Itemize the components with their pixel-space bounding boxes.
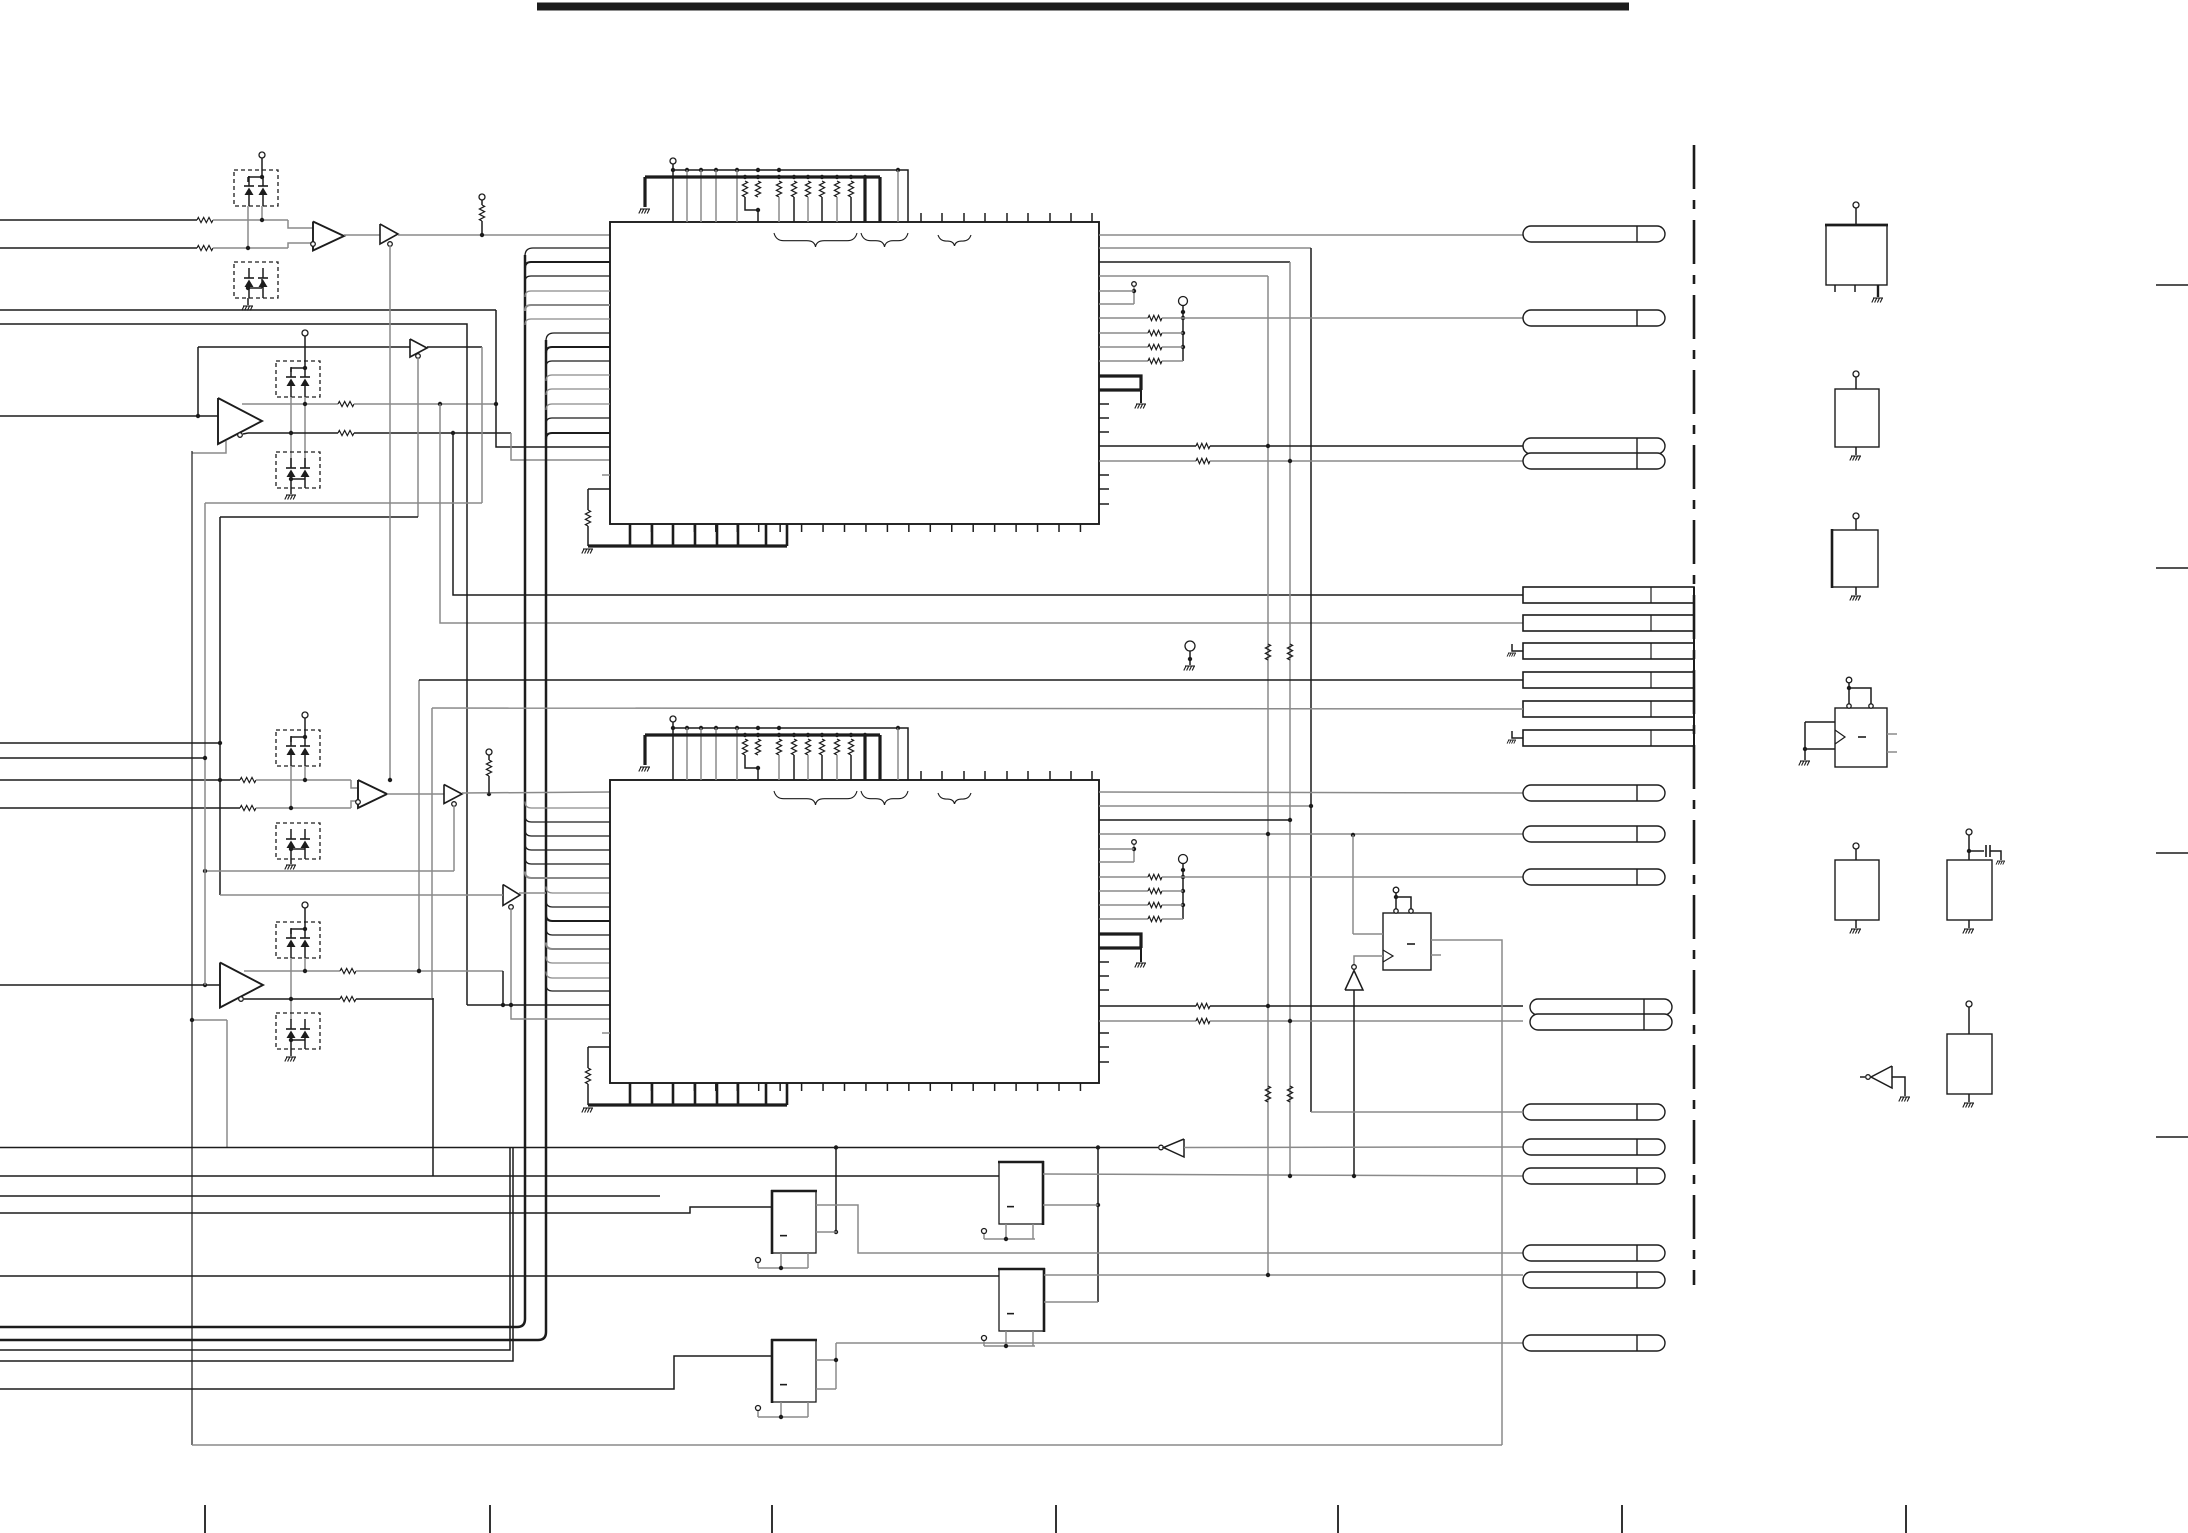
wire thick gnd U	[1099, 934, 1141, 948]
capacitor C1	[1969, 850, 1984, 852]
wire FF out	[1431, 940, 1502, 1445]
wire pin234 to pill	[1099, 234, 1523, 236]
terminal J-B	[302, 330, 308, 336]
connector bar CN24	[1523, 701, 1694, 717]
wire FF stub	[1431, 954, 1441, 956]
wire	[0, 1175, 999, 1177]
wire Q2 out	[1043, 1174, 1523, 1176]
wire bus line	[0, 1147, 1158, 1149]
wire Q3 out2	[1044, 1301, 1098, 1303]
wire bar5 feed	[432, 708, 1523, 709]
wire thick drops	[863, 735, 866, 780]
wire	[0, 309, 496, 311]
connector pill CN7	[1523, 869, 1665, 885]
IC B5	[1835, 860, 1879, 920]
title bar	[537, 3, 1629, 11]
terminal	[1853, 202, 1859, 208]
inverter U4 up	[1352, 965, 1357, 970]
IC U1	[610, 222, 1099, 524]
wire U2 pin1005 feed	[467, 1004, 610, 1006]
wire out-	[244, 998, 340, 1000]
wire	[0, 757, 205, 759]
wire	[398, 234, 610, 236]
connector bar CN23	[1523, 672, 1694, 688]
wire	[344, 234, 380, 236]
terminal	[1853, 371, 1859, 377]
ground	[1899, 1097, 1910, 1102]
wire	[247, 206, 249, 248]
wire to U2 pin1005	[502, 971, 504, 1005]
connector pill CN8	[1530, 999, 1672, 1015]
brace	[774, 233, 857, 247]
terminal	[982, 1336, 987, 1341]
buffer U-B3	[444, 785, 462, 804]
terminal J-D	[302, 902, 308, 908]
resistor R-A1	[0, 219, 197, 221]
wire bundle1 into U1	[525, 248, 610, 256]
op-amp U-D	[358, 780, 387, 808]
resistor rows U1 right	[1099, 317, 1148, 319]
wire	[256, 807, 351, 809]
wire	[389, 246, 391, 780]
IC U2 bottom stubs	[629, 1083, 631, 1091]
wire thick gnd U	[1099, 376, 1141, 390]
wire	[418, 680, 420, 971]
wire	[0, 1147, 510, 1350]
diode module D-C2	[276, 823, 320, 859]
terminal	[1846, 677, 1852, 683]
resistor R-b2	[587, 1084, 589, 1105]
terminal	[1853, 513, 1859, 519]
wire	[453, 806, 455, 871]
resistor R-v1	[1265, 644, 1270, 660]
connector pill CN14	[1523, 1272, 1665, 1288]
wire	[0, 1195, 660, 1197]
wire input	[0, 415, 218, 417]
wire bus vertical 2	[0, 340, 546, 1340]
diode module D-D1	[276, 922, 320, 958]
terminal	[982, 1229, 987, 1234]
wire bar4 feed	[419, 679, 1523, 681]
wire	[0, 1207, 772, 1213]
connector pill CN1	[1523, 226, 1665, 242]
wire thick bus	[645, 733, 880, 736]
wire out+	[244, 970, 340, 972]
op-amp U-E	[220, 963, 263, 1008]
IC U1 top stubs	[920, 213, 922, 222]
ground	[639, 767, 650, 772]
terminal J-FF1	[1393, 887, 1399, 893]
wire	[387, 793, 444, 795]
wire FF clock in	[1354, 956, 1383, 967]
wire	[290, 958, 292, 1020]
wire bundle1 into U2	[525, 802, 610, 809]
wire base network	[758, 1416, 808, 1418]
connector pill CN2	[1523, 310, 1665, 326]
wire bus drops	[686, 728, 688, 780]
wire B4 left	[1805, 721, 1835, 723]
diode module D-B2	[276, 452, 320, 488]
brace	[861, 791, 908, 805]
terminal J-R2	[486, 749, 492, 755]
ground bar6	[1512, 731, 1523, 738]
wire	[431, 708, 433, 998]
ground	[1850, 596, 1861, 601]
wire	[0, 1356, 772, 1389]
ground	[639, 209, 650, 214]
wire to IC pin 447	[496, 310, 610, 447]
terminal J-A	[259, 152, 265, 158]
brace	[774, 791, 857, 805]
wire	[0, 1275, 999, 1277]
wire	[0, 742, 220, 744]
wire pin806	[1099, 805, 1311, 807]
wire thick drops	[863, 177, 866, 222]
wire stub	[602, 1032, 610, 1034]
wire	[510, 909, 512, 1006]
diode module D-C1	[276, 730, 320, 766]
terminal	[1966, 829, 1972, 835]
wire feeds bar1	[453, 433, 1523, 595]
IC U1 bottom stubs	[629, 524, 631, 532]
terminal J-big1	[1179, 297, 1188, 306]
diode module D-A1	[234, 170, 278, 206]
inverter B8	[1871, 1066, 1892, 1088]
terminal J-C	[302, 712, 308, 718]
terminal J-mid	[1185, 641, 1195, 651]
brace	[861, 233, 908, 247]
wire to pill	[836, 1342, 1523, 1344]
ground	[242, 306, 253, 311]
wire	[290, 397, 292, 468]
wire out-	[243, 433, 248, 434]
connector pill CN4	[1523, 453, 1665, 469]
wire stub	[602, 474, 610, 476]
wire Q4 out	[816, 1359, 836, 1361]
diode module D-D2	[276, 1013, 320, 1049]
wire bus drops	[686, 170, 688, 222]
wire thin bus	[673, 727, 898, 729]
wire	[481, 347, 483, 503]
terminal	[1853, 843, 1859, 849]
IC U2 top bus terminal	[670, 716, 676, 722]
wire	[1353, 990, 1355, 1177]
wire pin1019 to pill	[1099, 1020, 1196, 1022]
transistor Q2	[999, 1162, 1043, 1224]
connector pill CN13	[1523, 1245, 1665, 1261]
ground	[1872, 298, 1883, 303]
connector bar CN25	[1523, 730, 1694, 746]
wire bottom thick bus	[588, 544, 787, 547]
connector pill CN6	[1523, 826, 1665, 842]
resistor R-C1	[0, 779, 240, 781]
right edge ticks	[2156, 284, 2188, 286]
connector pill CN5	[1523, 785, 1665, 801]
stubs U1 right	[1099, 403, 1109, 405]
resistor R-b1	[587, 526, 589, 546]
IC B2	[1835, 389, 1879, 447]
resistor R-v3	[1265, 1086, 1270, 1102]
wire pin877 to pill	[1183, 876, 1523, 878]
wire	[432, 998, 434, 1176]
wire pin820	[1099, 819, 1290, 821]
buffer U-B4	[503, 885, 520, 906]
terminal J-C1	[1132, 282, 1137, 287]
wire thick bus	[645, 175, 880, 178]
transistor Q1	[772, 1191, 816, 1253]
ground	[285, 865, 296, 870]
resistor R-pull1	[479, 205, 484, 221]
wire	[0, 1147, 513, 1361]
wire	[205, 502, 482, 504]
wire	[256, 779, 351, 781]
brace	[938, 235, 971, 246]
inverter U5	[1159, 1145, 1164, 1150]
diode module D-B1	[276, 361, 320, 397]
wire	[417, 357, 419, 517]
connector pill CN3	[1523, 438, 1665, 454]
connector bar CN22	[1523, 643, 1694, 659]
wire	[213, 219, 288, 221]
ground	[285, 1057, 296, 1062]
wire	[1097, 1148, 1099, 1303]
ground bar3	[1512, 644, 1523, 651]
IC B7	[1947, 1034, 1992, 1094]
IC B3	[1832, 530, 1878, 587]
connector pill CN12	[1523, 1168, 1665, 1184]
separator line	[1693, 145, 1696, 1285]
wire base network	[984, 1345, 1035, 1347]
wire input	[0, 984, 220, 986]
resistor R-C2	[0, 807, 240, 809]
brace	[938, 793, 971, 804]
wire pin834 to pill	[1099, 833, 1523, 835]
wire B4 stubs	[1887, 733, 1897, 735]
wire	[0, 324, 467, 1005]
flip-flop B4	[1835, 708, 1887, 767]
wire bottom thick bus	[588, 1103, 787, 1106]
wire pin276	[1099, 275, 1268, 277]
wire bus vertical 1	[0, 255, 525, 1327]
wire Q1 out2	[816, 1231, 837, 1233]
wire	[1892, 1077, 1905, 1096]
wire pin318 to pill2	[1183, 317, 1523, 319]
wire out+	[242, 403, 338, 405]
wire	[1855, 447, 1857, 455]
resistor R-v4	[1287, 1086, 1292, 1102]
wire feeds bar2	[440, 404, 1523, 623]
resistor rows U2 right	[1099, 876, 1148, 878]
IC U1 top bus terminal	[670, 158, 676, 164]
wire bundle2 into U1	[546, 333, 610, 341]
ground	[582, 549, 593, 554]
wire pin248	[1099, 247, 1311, 249]
wire to IC pin 460	[511, 433, 610, 460]
flip-flop U3	[1383, 913, 1431, 970]
wire	[427, 346, 482, 348]
wire to U2 pin1019	[511, 1005, 610, 1019]
wire FF input	[1352, 835, 1354, 934]
wire big loop	[191, 451, 193, 1445]
ground	[1135, 404, 1146, 409]
diode module D-A2	[234, 262, 278, 298]
IC B6	[1947, 860, 1992, 920]
ground	[1996, 861, 2005, 865]
buffer U-B2	[410, 339, 427, 357]
ground	[1850, 929, 1861, 934]
terminal J-R1	[479, 194, 485, 200]
wire pin792 to pill	[1099, 792, 1523, 793]
wire	[1855, 920, 1857, 928]
op-amp U-C	[218, 398, 262, 444]
wire thin bus	[673, 169, 898, 171]
resistor array RA1	[743, 175, 747, 179]
connector bar CN20	[1523, 587, 1694, 603]
connector pill CN9	[1530, 1014, 1672, 1030]
ground	[1963, 929, 1974, 934]
buffer U-B1	[380, 224, 398, 244]
wire Q1 out	[816, 1205, 1523, 1253]
wire Q2 out2	[1043, 1204, 1098, 1206]
IC B1	[1826, 225, 1887, 285]
resistor array RA2	[743, 733, 747, 737]
wire link	[192, 441, 226, 453]
wire	[1968, 1094, 1970, 1102]
wire	[519, 892, 546, 894]
terminal J-C2	[1132, 840, 1137, 845]
wire base network	[758, 1267, 808, 1269]
transistor Q3	[999, 1269, 1044, 1331]
wire to pill CN10	[1311, 1111, 1523, 1113]
wire Q3 out	[1044, 1274, 1523, 1276]
wire	[219, 517, 221, 895]
ground	[1850, 456, 1861, 461]
wire	[220, 894, 503, 896]
ground	[285, 495, 296, 500]
ground	[1135, 963, 1146, 968]
terminal	[756, 1406, 761, 1411]
wire to pill	[1184, 1146, 1523, 1149]
wire stubs	[1834, 285, 1836, 292]
wire base network	[984, 1238, 1035, 1240]
resistor R-v2	[1287, 644, 1292, 660]
wire bundle2 into U2	[546, 887, 610, 894]
wire pin461 to pill4	[1099, 460, 1196, 462]
stubs U2 right	[1099, 961, 1109, 963]
wire	[1968, 920, 1970, 928]
wire pin1004 to pill	[1099, 1005, 1196, 1007]
wire pin262	[1099, 261, 1290, 263]
ground	[1799, 761, 1810, 766]
terminal	[1966, 1001, 1972, 1007]
ground	[1963, 1103, 1974, 1108]
op-amp U-A	[313, 222, 344, 251]
connector pill CN10	[1523, 1104, 1665, 1120]
connector pill CN11	[1523, 1139, 1665, 1155]
wire bar group vertical	[1693, 587, 1695, 745]
IC U2 top stubs	[920, 771, 922, 780]
connector bar CN21	[1523, 615, 1694, 631]
terminal	[756, 1258, 761, 1263]
wire	[213, 247, 288, 249]
wire	[835, 1148, 837, 1233]
wire to U2	[462, 792, 610, 793]
wire	[1855, 587, 1857, 595]
wire	[192, 1019, 227, 1021]
transistor Q4	[772, 1340, 816, 1402]
connector pill CN15	[1523, 1335, 1665, 1351]
ground	[582, 1108, 593, 1113]
wire pin446 to pill3	[1099, 445, 1196, 447]
resistor R-pull2	[486, 760, 491, 776]
IC U2	[610, 780, 1099, 1083]
wire	[290, 766, 292, 808]
resistor R-A2	[0, 247, 197, 249]
terminal J-big2	[1179, 855, 1188, 864]
bottom ticks	[204, 1505, 206, 1533]
